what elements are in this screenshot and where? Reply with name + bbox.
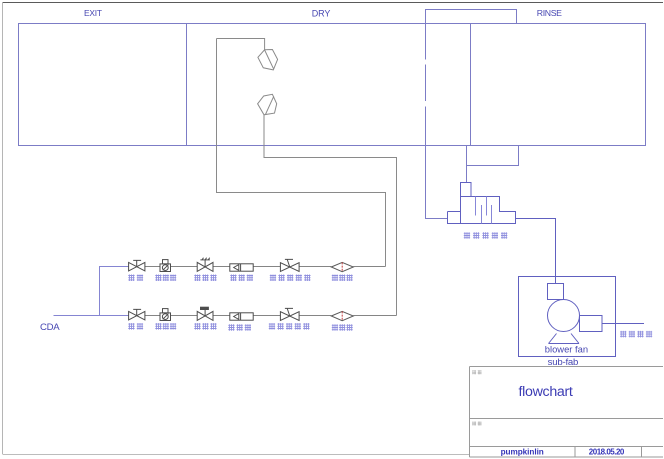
spray nozzle 1 <box>258 50 278 70</box>
hand valve row2 <box>129 309 145 320</box>
blower fan outlet duct <box>580 316 603 332</box>
liquid-gas separator body <box>448 197 516 224</box>
blower fan scroll <box>548 300 580 332</box>
CDA supply pipe row2 left <box>54 315 129 317</box>
label pneumatic-valve row2 <box>194 323 200 330</box>
regulator row2 <box>160 309 171 321</box>
hand valve row1 <box>129 260 145 271</box>
sub-fab enclosure box <box>519 277 616 357</box>
separator stem box <box>461 183 472 197</box>
divider EXIT/DRY <box>186 24 188 146</box>
svg-text:2018.05.20: 2018.05.20 <box>589 447 625 456</box>
label regulator row2 <box>155 323 161 330</box>
label pneumatic-valve row1 <box>194 275 200 282</box>
blower fan stand <box>549 334 580 344</box>
label regulator row1 <box>155 275 161 282</box>
dry chamber inner duct top <box>217 39 265 50</box>
svg-text:blower fan: blower fan <box>545 344 588 355</box>
exhaust line <box>602 323 644 325</box>
filter row1 <box>331 262 353 271</box>
dry chamber inner duct left branch <box>217 39 386 267</box>
pneumatic valve row1 <box>197 258 213 272</box>
label flow-meter row2 <box>228 324 234 331</box>
spray nozzle 2 <box>258 94 277 115</box>
divider RINSE right wall <box>470 24 472 146</box>
title block frame <box>470 367 664 458</box>
regulator row1 <box>160 260 171 272</box>
label flow-adjust-valve row2 <box>269 323 275 330</box>
page border left <box>2 3 4 455</box>
flow meter row2 <box>230 313 253 320</box>
title block field name 1 <box>472 370 481 374</box>
label flow-meter row1 <box>230 275 236 282</box>
CDA branch riser <box>100 267 129 316</box>
pneumatic valve row2 <box>197 307 213 320</box>
flow adjusting valve row1 <box>280 259 299 271</box>
feed line into separator stem <box>466 166 468 184</box>
separator outlet pipe to fan <box>516 219 556 284</box>
flow meter row1 <box>230 264 253 271</box>
flow adjusting valve row2 <box>280 308 299 320</box>
machine band rectangle <box>19 24 646 146</box>
row1 pipe segments <box>145 266 386 268</box>
svg-text:flowchart: flowchart <box>519 384 573 400</box>
separator baffles <box>476 197 492 224</box>
dry chamber inner duct right branch <box>264 115 397 316</box>
label filter row1 <box>332 275 338 282</box>
svg-text:RINSE: RINSE <box>537 8 562 18</box>
label separator <box>464 232 508 239</box>
label hand-valve row1 <box>128 275 134 282</box>
svg-text:DRY: DRY <box>312 9 331 19</box>
svg-text:EXIT: EXIT <box>84 8 102 18</box>
page border top <box>3 2 664 4</box>
drain wall and pipe to separator <box>426 24 448 219</box>
label facility exhaust <box>620 331 652 338</box>
label hand-valve row2 <box>128 323 134 330</box>
row1 labels <box>128 275 352 282</box>
raised lid rectangle above band <box>426 10 517 24</box>
filter row2 <box>331 311 353 320</box>
page border bottom <box>3 454 470 456</box>
svg-text:pumpkinlin: pumpkinlin <box>501 447 544 456</box>
row2 pipe segments <box>145 315 397 317</box>
blower fan inlet duct <box>548 284 564 300</box>
row2 labels <box>128 323 352 331</box>
label filter row2 <box>332 324 338 331</box>
title block field name 2 <box>472 421 481 425</box>
rinse outlet box below band <box>467 146 519 166</box>
label flow-adjust-valve row1 <box>270 275 276 282</box>
svg-text:CDA: CDA <box>40 322 60 333</box>
